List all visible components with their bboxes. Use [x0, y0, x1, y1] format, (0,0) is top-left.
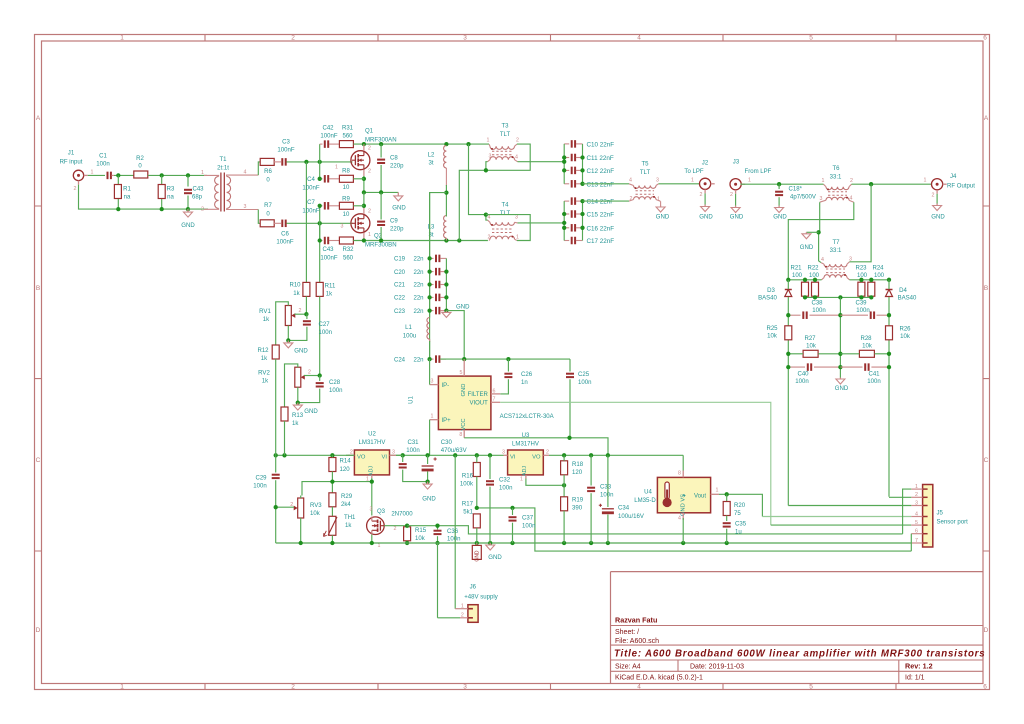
svg-text:100n: 100n — [522, 523, 535, 529]
svg-text:560: 560 — [342, 133, 353, 139]
svg-text:1: 1 — [431, 414, 434, 420]
thermometer icon — [665, 482, 669, 499]
svg-text:5: 5 — [809, 684, 813, 691]
svg-text:To LPF: To LPF — [684, 169, 703, 175]
wire J1 pin1 to C1 — [88, 174, 105, 176]
svg-text:D3: D3 — [767, 288, 775, 294]
svg-text:C39: C39 — [855, 300, 867, 306]
svg-text:3t: 3t — [428, 161, 433, 167]
capacitor C9 220p — [380, 192, 382, 219]
svg-text:BAS40: BAS40 — [898, 296, 917, 302]
svg-text:C20: C20 — [394, 270, 406, 276]
wire J6 feed column — [454, 455, 456, 608]
svg-text:22n: 22n — [413, 257, 423, 263]
svg-text:L1: L1 — [405, 325, 412, 331]
svg-text:4p7/500V: 4p7/500V — [790, 195, 816, 201]
svg-text:220p: 220p — [390, 227, 404, 233]
capacitor bank right rail — [582, 144, 584, 184]
wire T7 pin3 to J4 node — [850, 184, 872, 262]
ground symbol mid — [397, 192, 399, 196]
capacitor C43 68p — [187, 175, 189, 186]
ground detector center — [839, 378, 841, 380]
svg-text:C10 22nF: C10 22nF — [587, 141, 615, 148]
potentiometer RV1 1k — [285, 306, 291, 326]
svg-text:Size: A4: Size: A4 — [615, 663, 641, 670]
capacitor C28 100n — [319, 376, 321, 381]
svg-text:4: 4 — [678, 516, 681, 522]
svg-text:LM35-D: LM35-D — [634, 498, 656, 504]
resistor R2 0 — [134, 171, 148, 178]
svg-text:GND: GND — [422, 496, 436, 502]
svg-text:2: 2 — [546, 449, 549, 455]
svg-text:2t:1t: 2t:1t — [217, 165, 229, 171]
svg-text:3: 3 — [463, 35, 467, 42]
svg-text:100nF: 100nF — [302, 208, 319, 214]
svg-text:22n: 22n — [413, 283, 423, 289]
svg-text:C34: C34 — [618, 505, 630, 511]
svg-text:U2: U2 — [368, 431, 376, 437]
svg-text:22n: 22n — [413, 309, 423, 315]
node junction C6 out — [318, 221, 322, 225]
svg-text:C: C — [984, 457, 989, 464]
svg-text:VO: VO — [357, 454, 366, 460]
svg-text:8: 8 — [459, 432, 462, 438]
resistor R9 10 — [339, 202, 353, 209]
ground rail wire — [188, 208, 208, 210]
svg-text:1n: 1n — [521, 380, 528, 386]
svg-text:4: 4 — [629, 178, 632, 184]
svg-text:100nF: 100nF — [320, 255, 337, 261]
wire J5 pin2 from D4 column — [889, 496, 911, 498]
capacitor C11 22nF — [564, 157, 569, 159]
svg-text:10k: 10k — [415, 536, 426, 542]
svg-text:C6: C6 — [281, 231, 289, 237]
svg-text:100nF: 100nF — [320, 133, 337, 139]
svg-text:100n: 100n — [96, 162, 109, 168]
svg-text:RV1: RV1 — [259, 309, 271, 315]
svg-text:2N7000: 2N7000 — [391, 512, 413, 518]
svg-text:TLT: TLT — [500, 211, 511, 217]
wire J5 pin6 from sense line — [910, 534, 912, 551]
gnd rail between sources — [364, 191, 398, 193]
svg-text:R31: R31 — [342, 125, 354, 131]
svg-text:3: 3 — [370, 507, 373, 513]
svg-text:TLT: TLT — [640, 170, 651, 176]
wire J5 pin3 from D3 column — [788, 505, 911, 507]
svg-text:GND: GND — [773, 214, 787, 220]
svg-text:TLT: TLT — [500, 132, 511, 138]
svg-text:4: 4 — [850, 195, 853, 201]
svg-text:IP-: IP- — [442, 383, 450, 389]
transistor Q1 MRF300AN — [351, 151, 370, 170]
svg-text:100n: 100n — [499, 485, 512, 491]
resistor R32 560 — [339, 237, 353, 244]
svg-text:1: 1 — [91, 170, 94, 176]
svg-text:7: 7 — [493, 397, 496, 403]
svg-text:Razvan Fatu: Razvan Fatu — [615, 616, 657, 625]
svg-text:1: 1 — [716, 488, 719, 494]
svg-text:B: B — [984, 285, 988, 292]
wire Q3 gate to C36 and J5 — [407, 525, 437, 527]
svg-text:Date: 2019-11-03: Date: 2019-11-03 — [690, 663, 744, 670]
capacitor C22 22n — [430, 296, 434, 298]
svg-text:75: 75 — [734, 511, 741, 517]
resistor R23 — [858, 282, 865, 296]
svg-text:VO: VO — [532, 454, 541, 460]
svg-text:100: 100 — [792, 273, 803, 279]
svg-text:VIOUT: VIOUT — [469, 400, 488, 406]
wire gate A bias column (R10) — [305, 162, 307, 283]
svg-text:RV2: RV2 — [258, 371, 270, 377]
wire T7 pin2 to R21 line — [788, 279, 821, 281]
gnd flag box — [476, 543, 478, 545]
svg-text:J1: J1 — [68, 151, 75, 157]
resistor R25 10k — [785, 326, 792, 340]
svg-text:C9: C9 — [390, 219, 398, 225]
wire C3 to Q1 gate — [287, 161, 353, 163]
wire J6 gnd column — [437, 543, 439, 618]
capacitor C21 22n — [430, 284, 434, 286]
svg-text:C14 22nF: C14 22nF — [587, 199, 615, 206]
svg-text:ACS712xLCTR-30A: ACS712xLCTR-30A — [500, 414, 555, 420]
svg-text:ADJ: ADJ — [368, 466, 374, 476]
wire T6 pin3 to gnd and T7 pin4 — [819, 202, 821, 262]
svg-text:4: 4 — [488, 214, 491, 220]
wire R11 column — [319, 223, 321, 282]
wire RV2 top — [285, 364, 298, 407]
svg-text:R17: R17 — [462, 501, 474, 507]
capacitor C19 22n — [430, 257, 434, 259]
potentiometer RV2 1k — [295, 367, 301, 387]
svg-text:1: 1 — [120, 684, 124, 691]
svg-text:GND: GND — [488, 555, 502, 561]
svg-text:Rev: 1.2: Rev: 1.2 — [905, 661, 933, 670]
svg-text:L2: L2 — [428, 153, 435, 159]
wire T4 pin1 to pin3 loop — [486, 215, 530, 241]
svg-text:C28: C28 — [329, 380, 341, 386]
svg-text:8: 8 — [678, 471, 681, 477]
title block — [611, 572, 984, 684]
svg-text:10k: 10k — [310, 511, 321, 517]
svg-text:5: 5 — [460, 370, 463, 376]
svg-text:C1: C1 — [99, 154, 107, 160]
wire +48V feed down — [430, 193, 447, 360]
capacitor C16 22nF — [564, 227, 569, 229]
svg-text:C40: C40 — [797, 371, 809, 377]
wire T3 pin3 node to Q2 drain column — [459, 170, 486, 240]
svg-text:T4: T4 — [501, 203, 509, 209]
wire U1 IP+ down to +48 rail — [430, 419, 439, 421]
svg-text:GND: GND — [730, 214, 744, 220]
svg-text:100k: 100k — [460, 482, 474, 488]
svg-text:560: 560 — [343, 255, 354, 261]
svg-text:33:1: 33:1 — [830, 248, 842, 254]
svg-text:R3: R3 — [167, 187, 175, 193]
svg-text:6: 6 — [983, 684, 987, 691]
svg-text:C8: C8 — [390, 156, 398, 162]
svg-text:3: 3 — [392, 449, 395, 455]
svg-text:4: 4 — [244, 170, 247, 176]
capacitor C20 22n — [430, 271, 434, 273]
IC U1 ACS712 current sensor — [438, 376, 491, 430]
wire T7 pin1 to R23 line — [850, 279, 890, 281]
resistor R22 — [812, 282, 819, 296]
svg-text:2: 2 — [850, 178, 853, 184]
svg-text:C33: C33 — [600, 484, 612, 490]
capacitor C18 4p7/500V — [777, 182, 781, 186]
svg-text:C24: C24 — [394, 357, 406, 363]
wire T3 pin2 to pin3 loop — [486, 144, 530, 170]
resistor R13 1k — [281, 407, 288, 421]
ground symbol below C43 — [187, 209, 189, 212]
svg-text:C41: C41 — [868, 371, 880, 377]
capacitor C14 22nF — [564, 200, 569, 202]
svg-text:RV3: RV3 — [310, 503, 322, 509]
inductor L1 100u — [427, 318, 430, 340]
svg-text:VI: VI — [382, 454, 388, 460]
svg-text:R22: R22 — [807, 265, 819, 271]
wire U3 VO line +5V — [549, 454, 683, 456]
svg-text:U1: U1 — [409, 396, 415, 404]
capacitor bank left rail — [563, 144, 565, 184]
resistor R20 75 — [726, 494, 728, 501]
svg-text:R26: R26 — [899, 326, 911, 332]
svg-text:10: 10 — [343, 212, 350, 218]
svg-text:Q1: Q1 — [365, 129, 374, 135]
svg-text:MRF300BN: MRF300BN — [365, 242, 397, 248]
resistor R7 0 — [260, 220, 274, 227]
svg-text:R2: R2 — [136, 156, 144, 162]
svg-text:Id: 1/1: Id: 1/1 — [905, 675, 925, 682]
svg-text:C36: C36 — [447, 529, 459, 535]
connector J5 Sensor port — [923, 485, 933, 548]
svg-text:Q3: Q3 — [377, 509, 386, 515]
svg-text:GND: GND — [800, 245, 814, 251]
wire T1 pin3 down to R7 — [258, 210, 260, 224]
IC U2 LM317HV — [354, 450, 389, 475]
capacitor C17 22nF — [564, 240, 569, 242]
svg-text:C13 22nF: C13 22nF — [587, 181, 615, 188]
wire gate B bias column upper segment — [319, 144, 321, 179]
svg-text:C43: C43 — [192, 187, 204, 193]
svg-text:4: 4 — [515, 155, 518, 161]
wire J5 pin7 gnd — [910, 542, 912, 544]
ground arrow at rail — [489, 543, 491, 545]
svg-text:1: 1 — [201, 170, 204, 176]
svg-text:3: 3 — [244, 204, 247, 210]
ground at J3 — [735, 206, 737, 208]
svg-text:GND VS: GND VS — [681, 494, 687, 516]
svg-text:1: 1 — [378, 543, 381, 549]
wire RV2 wiper — [304, 375, 320, 377]
svg-text:100n: 100n — [795, 379, 808, 385]
svg-text:2: 2 — [932, 192, 935, 198]
capacitor C1 100n — [107, 172, 109, 180]
svg-text:MRF300AN: MRF300AN — [365, 137, 397, 143]
svg-text:100n: 100n — [600, 492, 613, 498]
svg-text:C4: C4 — [307, 177, 315, 183]
svg-text:LM317HV: LM317HV — [512, 441, 539, 447]
resistor R3 na — [161, 175, 163, 184]
capacitor C12 22nF — [564, 169, 569, 171]
svg-text:B: B — [36, 285, 40, 292]
resistor R31 560 — [339, 141, 353, 148]
svg-text:2: 2 — [291, 684, 295, 691]
svg-text:C12 22nF: C12 22nF — [587, 168, 615, 175]
wire U1 FILTER pin6 — [491, 393, 500, 395]
svg-text:Vout: Vout — [694, 493, 706, 499]
svg-text:1k: 1k — [292, 421, 299, 427]
connector J4 RF Output — [932, 179, 943, 190]
wire U1 IP- — [430, 384, 439, 386]
svg-text:100n: 100n — [253, 483, 266, 489]
wire RV3 top/bottom — [300, 496, 302, 499]
svg-text:100n: 100n — [856, 308, 869, 314]
connector J3 From LPF — [730, 179, 741, 190]
bank left column — [429, 193, 431, 318]
svg-text:C22: C22 — [394, 296, 406, 302]
svg-text:1: 1 — [335, 165, 338, 171]
svg-text:C27: C27 — [319, 322, 331, 328]
transistor Q2 MRF300BN — [351, 214, 370, 233]
svg-text:C19: C19 — [394, 257, 406, 263]
svg-text:1k: 1k — [262, 379, 269, 385]
svg-text:100n: 100n — [319, 330, 332, 336]
wire Q3 gate line — [384, 525, 407, 527]
node junction C3 out — [304, 160, 308, 164]
wire C13 row to T5 — [583, 183, 630, 185]
svg-text:R23: R23 — [855, 265, 867, 271]
wire U2 ADJ — [371, 475, 373, 478]
capacitor C8 220p — [380, 144, 382, 157]
capacitor C15 22nF — [564, 213, 569, 215]
wire Q1 drain line — [353, 143, 489, 145]
svg-text:C25: C25 — [578, 372, 590, 378]
svg-text:1k: 1k — [326, 292, 333, 298]
svg-text:R7: R7 — [264, 203, 272, 209]
wire Vout to J5 pin4 — [762, 516, 911, 518]
svg-text:3: 3 — [820, 196, 823, 202]
svg-text:T1: T1 — [219, 157, 227, 163]
svg-text:2: 2 — [308, 370, 311, 376]
svg-text:J2: J2 — [702, 160, 709, 166]
wire U1 pin5 stub — [463, 359, 465, 376]
svg-text:TH1: TH1 — [344, 515, 356, 521]
ground at J2 — [704, 205, 706, 207]
wire Q1 drain to T4 pin4 — [469, 144, 488, 220]
svg-text:100n: 100n — [812, 308, 825, 314]
resistor R19 390 — [561, 497, 568, 511]
svg-text:C18*: C18* — [789, 187, 803, 193]
svg-text:C42: C42 — [322, 125, 334, 131]
svg-text:File: A600.sch: File: A600.sch — [615, 638, 659, 645]
svg-text:C15 22nF: C15 22nF — [587, 212, 615, 219]
svg-text:120: 120 — [572, 470, 583, 476]
inductor L2 3t — [444, 146, 447, 169]
svg-text:2: 2 — [74, 186, 77, 192]
svg-text:3: 3 — [431, 379, 434, 385]
svg-text:ADJ: ADJ — [522, 466, 528, 476]
svg-text:C35: C35 — [735, 521, 747, 527]
svg-text:120: 120 — [340, 467, 351, 473]
svg-text:2: 2 — [291, 35, 295, 42]
svg-text:1u: 1u — [735, 529, 742, 535]
capacitor C36 100n — [437, 526, 439, 530]
svg-text:1: 1 — [120, 35, 124, 42]
svg-text:2: 2 — [700, 192, 703, 198]
wire RV1 wiper — [295, 313, 307, 315]
svg-text:22n: 22n — [413, 270, 423, 276]
svg-text:+48V supply: +48V supply — [464, 594, 498, 600]
ground at C18 — [778, 206, 780, 208]
svg-text:T7: T7 — [832, 240, 840, 246]
svg-text:C16 22nF: C16 22nF — [587, 225, 615, 232]
svg-text:33:1: 33:1 — [830, 174, 842, 180]
svg-text:100nF: 100nF — [277, 147, 294, 153]
svg-text:na: na — [167, 195, 174, 201]
svg-text:3: 3 — [341, 224, 344, 230]
svg-text:R8: R8 — [342, 168, 350, 174]
wire T3 pin4 to C10 bank — [518, 161, 565, 163]
wire R17 top sense line — [477, 508, 912, 551]
capacitor C6 100nF — [281, 220, 283, 228]
wire U4 gnd pin4 — [682, 518, 684, 543]
svg-text:1: 1 — [520, 476, 523, 482]
resistor R24 — [868, 282, 875, 296]
svg-text:4: 4 — [637, 35, 641, 42]
svg-text:1: 1 — [748, 178, 751, 184]
wire T6 pin2 to J4 — [852, 183, 933, 185]
svg-text:470u/63V: 470u/63V — [441, 448, 467, 454]
svg-text:220p: 220p — [390, 164, 404, 170]
svg-text:R25: R25 — [766, 326, 778, 332]
svg-text:C30: C30 — [441, 440, 453, 446]
wire U1 VIOUT pin7 to J5 pin5 — [491, 401, 500, 403]
wire bank gnd to U1 pin5 column — [446, 311, 464, 360]
svg-text:GND: GND — [699, 214, 713, 220]
svg-text:C17 22nF: C17 22nF — [587, 238, 615, 245]
svg-text:4: 4 — [821, 257, 824, 263]
svg-text:GND: GND — [294, 349, 308, 355]
svg-text:R12: R12 — [257, 348, 269, 354]
resistor R18 120 — [561, 461, 568, 475]
svg-text:R10: R10 — [289, 283, 301, 289]
svg-text:2: 2 — [350, 449, 353, 455]
svg-text:GND: GND — [181, 223, 195, 229]
resistor R12 1k — [272, 345, 279, 359]
wire J1 pin2 to ground rail — [79, 185, 189, 210]
svg-text:R18: R18 — [572, 462, 584, 468]
svg-text:J3: J3 — [733, 159, 740, 165]
svg-text:2: 2 — [630, 196, 633, 202]
svg-text:390: 390 — [572, 506, 583, 512]
svg-text:1: 1 — [516, 235, 519, 241]
svg-text:2: 2 — [488, 235, 491, 241]
svg-text:C32: C32 — [499, 477, 511, 483]
potentiometer RV3 10k — [298, 498, 304, 518]
wire U1 VCC pin8 — [463, 430, 465, 438]
svg-text:100: 100 — [874, 273, 885, 279]
svg-text:GND: GND — [656, 214, 670, 220]
thermistor TH1 1k — [329, 516, 336, 535]
resistor R8 10 — [339, 175, 353, 182]
svg-text:T6: T6 — [832, 166, 840, 172]
svg-text:GND: GND — [392, 206, 406, 212]
svg-text:VCC: VCC — [461, 418, 467, 430]
capacitor C34 100u/16V — [607, 455, 609, 507]
wire J6 pin2 gnd — [438, 617, 461, 619]
svg-text:C: C — [36, 457, 41, 464]
